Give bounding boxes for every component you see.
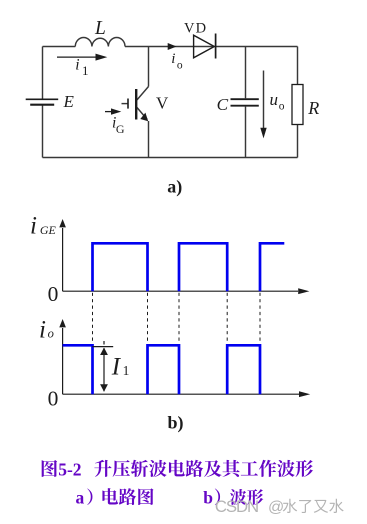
svg-text:CSDN: CSDN (215, 497, 258, 516)
svg-text:I: I (111, 354, 122, 381)
svg-text:1: 1 (123, 363, 130, 378)
svg-text:a): a) (167, 176, 182, 197)
svg-text:b: b (203, 487, 213, 507)
svg-text:1: 1 (82, 63, 89, 78)
svg-text:E: E (63, 92, 75, 111)
svg-text:0: 0 (48, 282, 59, 306)
svg-text:i: i (171, 51, 175, 67)
svg-text:b): b) (168, 412, 184, 433)
svg-text:G: G (116, 122, 125, 136)
svg-text:0: 0 (48, 386, 59, 410)
svg-text:i: i (30, 213, 37, 240)
svg-text:o: o (279, 101, 285, 113)
svg-text:@: @ (268, 499, 284, 516)
svg-text:o: o (48, 327, 54, 341)
svg-text:5-2: 5-2 (58, 459, 81, 479)
svg-text:V: V (156, 94, 169, 113)
svg-text:a: a (76, 487, 85, 507)
svg-text:o: o (177, 59, 183, 71)
svg-text:i: i (39, 316, 46, 343)
svg-text:i: i (75, 57, 79, 74)
svg-text:L: L (94, 18, 106, 39)
svg-text:u: u (270, 90, 279, 109)
svg-text:VD: VD (184, 20, 207, 36)
svg-text:GE: GE (40, 223, 57, 237)
svg-text:R: R (307, 98, 319, 118)
svg-text:C: C (217, 95, 229, 114)
